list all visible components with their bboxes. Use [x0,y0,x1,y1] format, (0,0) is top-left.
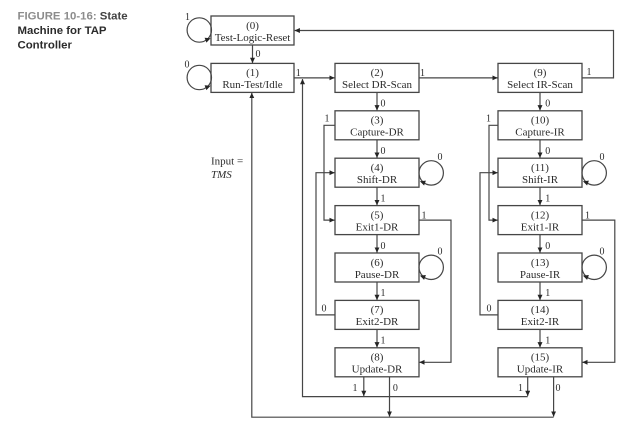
state box 4 Shift-DR [335,158,419,187]
self-loop circle on state11 label 0 [582,152,606,186]
state box 3 Capture-DR [335,111,419,140]
state box 8 Update-DR [335,348,419,377]
svg-text:1: 1 [587,67,592,78]
svg-text:(1): (1) [246,67,259,79]
svg-text:Update-DR: Update-DR [352,364,403,376]
svg-text:Exit1-IR: Exit1-IR [521,221,560,233]
svg-text:0: 0 [545,241,550,252]
wire state14 to state15 on 1 [539,329,541,347]
svg-text:0: 0 [256,49,261,60]
svg-text:1: 1 [585,210,590,221]
svg-text:0: 0 [322,304,327,315]
svg-text:(4): (4) [371,162,384,174]
wire state14 to state11 on 0 [480,173,498,315]
state box 13 Pause-IR [498,253,582,282]
svg-text:1: 1 [296,68,301,79]
wire state9 to state10 on 0 [539,92,541,110]
wire state5 to state6 on 0 [376,235,378,253]
self-loop circle on state6 label 0 [419,247,443,280]
svg-text:1: 1 [422,210,427,221]
svg-text:Controller: Controller [18,40,73,52]
wire feedback bus B up into state1 [252,93,554,417]
svg-text:Capture-DR: Capture-DR [350,127,404,139]
svg-text:(10): (10) [531,115,550,127]
svg-text:1: 1 [381,288,386,299]
svg-text:0: 0 [556,383,561,394]
svg-text:(5): (5) [371,209,384,221]
svg-text:0: 0 [545,146,550,157]
wire state1 to state2 on 1 [294,77,335,79]
state box 0 Test-Logic-Reset [211,16,294,45]
svg-text:Select IR-Scan: Select IR-Scan [507,79,573,91]
svg-text:1: 1 [420,68,425,79]
wire state13 to state14 on 1 [539,282,541,300]
svg-text:Machine for TAP: Machine for TAP [18,25,107,37]
figure caption title [18,11,128,52]
svg-text:(12): (12) [531,209,550,221]
wire state4 to state5 on 1 [376,187,378,205]
wire state5 to state8 on 1 [419,220,451,362]
wire state12 to state13 on 0 [539,235,541,253]
self-loop circle on state0 label 1 [185,12,212,43]
svg-text:1: 1 [381,193,386,204]
svg-text:(13): (13) [531,257,550,269]
svg-text:(8): (8) [371,352,384,364]
svg-text:(15): (15) [531,352,550,364]
svg-text:(6): (6) [371,257,384,269]
svg-text:0: 0 [381,241,386,252]
wire state7 to state8 on 1 [376,329,378,347]
svg-text:Select DR-Scan: Select DR-Scan [342,79,412,91]
svg-text:0: 0 [545,99,550,110]
svg-text:1: 1 [518,383,523,394]
svg-text:Exit2-IR: Exit2-IR [521,316,560,328]
svg-text:Exit1-DR: Exit1-DR [356,221,399,233]
svg-text:FIGURE 10-16: State: FIGURE 10-16: State [18,11,128,23]
self-loop circle on state1 label 0 [185,60,212,91]
svg-text:(14): (14) [531,304,550,316]
wire state3 to state5 on 1 [324,125,335,220]
svg-text:0: 0 [600,247,605,258]
svg-text:1: 1 [545,336,550,347]
state box 6 Pause-DR [335,253,419,282]
wire state11 to state12 on 1 [539,187,541,205]
svg-text:Run-Test/Idle: Run-Test/Idle [222,79,282,91]
wire state7 to state4 on 0 [316,173,335,315]
svg-text:(7): (7) [371,304,384,316]
svg-text:Exit2-DR: Exit2-DR [356,316,399,328]
svg-text:1: 1 [325,114,330,125]
svg-text:Pause-DR: Pause-DR [355,269,400,281]
state box 11 Shift-IR [498,158,582,187]
wire state2 to state9 on 1 [419,77,498,79]
state box 12 Exit1-IR [498,206,582,235]
svg-text:0: 0 [487,304,492,315]
svg-text:Shift-IR: Shift-IR [522,174,559,186]
svg-text:0: 0 [438,152,443,163]
wire state0 to state1 on 0 [252,45,254,63]
svg-text:1: 1 [381,336,386,347]
svg-text:(0): (0) [246,20,259,32]
svg-text:Test-Logic-Reset: Test-Logic-Reset [215,32,291,44]
wire state9 to state0 on 1 [295,31,614,78]
self-loop circle on state13 label 0 [582,247,606,280]
wire state15 branch 1 down to feedback bus A [527,377,529,396]
self-loop circle on state4 label 0 [419,152,443,186]
state box 15 Update-IR [498,348,582,377]
svg-text:1: 1 [486,114,491,125]
state box 7 Exit2-DR [335,300,419,329]
state box 14 Exit2-IR [498,300,582,329]
svg-text:1: 1 [353,383,358,394]
svg-text:Pause-IR: Pause-IR [520,269,561,281]
svg-text:(9): (9) [534,67,547,79]
svg-text:0: 0 [600,152,605,163]
wire feedback bus A up to edge 1-2 [303,79,528,397]
svg-text:TMS: TMS [211,169,232,181]
svg-text:0: 0 [381,146,386,157]
wire state3 to state4 on 0 [376,140,378,158]
svg-text:1: 1 [185,12,190,23]
wire state6 to state7 on 1 [376,282,378,300]
svg-text:(2): (2) [371,67,384,79]
svg-text:Capture-IR: Capture-IR [515,127,565,139]
wire state8 branch 0 down to feedback bus B [389,377,391,417]
svg-text:0: 0 [393,383,398,394]
svg-text:0: 0 [438,247,443,258]
wire state12 to state15 on 1 [582,220,615,362]
svg-text:0: 0 [185,60,190,71]
state box 1 Run-Test/Idle [211,63,294,92]
svg-text:0: 0 [381,99,386,110]
annotation Input = TMS [211,156,243,182]
wire state15 branch 0 down to feedback bus B [553,377,555,417]
state box 2 Select DR-Scan [335,63,419,92]
svg-text:(3): (3) [371,115,384,127]
svg-text:Update-IR: Update-IR [517,364,564,376]
wire state10 to state11 on 0 [539,140,541,158]
svg-text:1: 1 [545,193,550,204]
state box 5 Exit1-DR [335,206,419,235]
svg-text:1: 1 [545,288,550,299]
svg-text:Shift-DR: Shift-DR [357,174,398,186]
wire state10 to state12 on 1 [489,125,498,220]
state box 10 Capture-IR [498,111,582,140]
wire state8 branch 1 down to feedback bus A [363,377,365,396]
svg-text:Input =: Input = [211,156,243,168]
wire state2 to state3 on 0 [376,92,378,110]
state box 9 Select IR-Scan [498,63,582,92]
svg-text:(11): (11) [531,162,549,174]
